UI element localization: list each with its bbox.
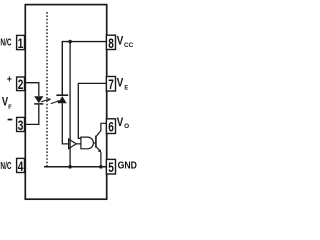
isolation shield (dotted line) bbox=[46, 12, 48, 167]
svg-text:+: + bbox=[7, 75, 12, 86]
svg-text:E: E bbox=[124, 84, 128, 91]
VCC rail wire bbox=[62, 42, 106, 95]
AND gate G1 bbox=[81, 137, 94, 149]
wire photodiode to amp bbox=[62, 103, 68, 144]
svg-text:7: 7 bbox=[108, 77, 114, 92]
svg-text:8: 8 bbox=[108, 36, 114, 51]
pin 8 box bbox=[106, 35, 115, 49]
cathode - label bbox=[8, 119, 13, 121]
svg-text:V: V bbox=[117, 117, 124, 129]
light arrow 1 bbox=[41, 98, 51, 101]
svg-text:2: 2 bbox=[18, 77, 24, 92]
svg-text:6: 6 bbox=[108, 120, 114, 135]
wire gate to base bbox=[93, 142, 95, 144]
VCC junction dot bbox=[68, 40, 72, 44]
light arrow 2 bbox=[51, 100, 61, 103]
pin 2 box bbox=[17, 77, 25, 91]
VE wire bbox=[78, 83, 106, 138]
transistor Q1 bbox=[95, 136, 97, 148]
svg-text:4: 4 bbox=[18, 159, 24, 174]
emitter wire bbox=[96, 146, 100, 151]
collector wire bbox=[96, 123, 107, 137]
wire amp to gate bbox=[76, 143, 81, 145]
svg-text:N/C: N/C bbox=[0, 37, 11, 48]
wire LED to pin3 bbox=[25, 105, 39, 125]
GND rail wire bbox=[44, 166, 106, 168]
svg-text:5: 5 bbox=[108, 160, 114, 175]
svg-text:F: F bbox=[8, 104, 11, 111]
svg-text:1: 1 bbox=[18, 36, 24, 51]
GND junction dot (emitter) bbox=[99, 165, 103, 169]
pin 4 box bbox=[17, 158, 25, 172]
svg-text:3: 3 bbox=[18, 118, 24, 133]
amplifier A1 bbox=[69, 139, 77, 149]
photodiode D2 bbox=[56, 94, 68, 96]
LED D1 bbox=[34, 96, 43, 103]
IC body U1 bbox=[25, 5, 106, 200]
pin 7 box bbox=[106, 77, 115, 92]
pin 6 box bbox=[106, 119, 115, 134]
wire pin2 to LED bbox=[25, 83, 39, 97]
pin 3 box bbox=[17, 117, 25, 131]
svg-text:V: V bbox=[117, 78, 124, 90]
svg-text:O: O bbox=[124, 123, 129, 130]
pin 5 box bbox=[106, 159, 115, 174]
svg-text:V: V bbox=[117, 35, 124, 47]
svg-text:GND: GND bbox=[118, 159, 138, 171]
svg-text:N/C: N/C bbox=[0, 161, 11, 172]
svg-text:CC: CC bbox=[124, 42, 134, 49]
GND junction dot (bias) bbox=[68, 165, 72, 169]
pin 1 box bbox=[17, 35, 25, 49]
VCC bias wire bbox=[69, 42, 71, 167]
